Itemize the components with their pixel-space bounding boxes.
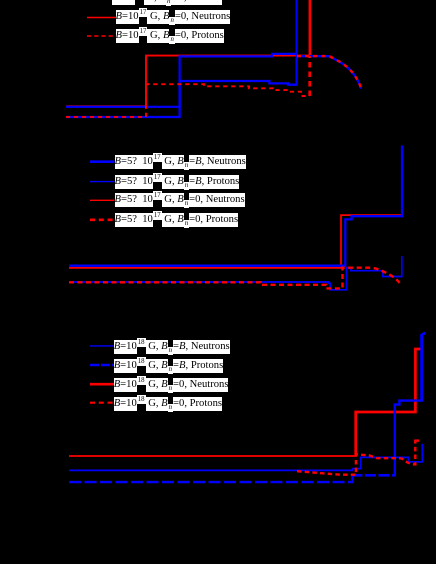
- panel 3 blue proton jump d: [394, 405, 396, 477]
- legend panel 3 entry 1 text: B=1e18 Bn=B Neutrons: [114, 340, 230, 354]
- panel 2 red neutron curve (B=5e17, Bn=0, Neutrons): [69, 215, 402, 268]
- legend panel 2 entry 3 text: B=5e17 Bn=0 Neutrons: [115, 193, 245, 207]
- panel 1 red neutron curve (B=1e17, Bn=0, Neutrons): [66, 56, 310, 107]
- legend panel 3 entry 2 text: B=1e18 Bn=B Protons: [114, 359, 224, 373]
- legend panel 2 entry 1 text: B=5e17 Bn=B Neutrons: [115, 155, 246, 169]
- panel 3 red neutron jump staircase: [356, 349, 422, 456]
- panel 2 red proton dashed curve (B=5e17, Bn=0, Protons): [69, 268, 400, 289]
- panel 3 blue proton top jog g: [422, 332, 425, 334]
- legend panel 3 entry 4 text: B=1e18 Bn=0 Protons: [114, 397, 222, 411]
- panel 3 blue proton step b: [351, 475, 353, 483]
- legend panel 2 entry 4 text: B=5e17 Bn=0 Protons: [115, 213, 239, 227]
- legend panel 2 entry 3 sample line: red thin: [90, 199, 114, 201]
- panel 1 blue neutron curve (B=1e17, Bn=B, Neutrons): [66, 0, 297, 107]
- legend panel 1 entry 4 text: B=1e17 Bn=0 Protons: [116, 29, 224, 43]
- panel 3 blue proton jump f: [420, 334, 423, 402]
- panel 3 blue proton segment e: [394, 401, 422, 405]
- legend panel 2 entry 4 sample line: red dashed thick: [90, 219, 114, 222]
- panel 1 red proton dashed jump: [308, 56, 311, 96]
- legend panel 3 entry 4 sample line: red dashed: [90, 402, 114, 404]
- legend panel 3 entry 3 text: B=1e18 Bn=0 Neutrons: [114, 378, 229, 392]
- legend panel 2 entry 2 sample line: blue thin: [90, 181, 114, 183]
- legend panel 1 entry 4 sample line: red dashed: [87, 35, 119, 37]
- panel 3 blue proton segment c: [351, 474, 394, 477]
- panel 1 blue proton curve (B=1e17, Bn=B, Protons): [66, 56, 361, 117]
- legend panel 2 entry 1 sample line: blue thick: [90, 160, 114, 163]
- panel 2 blue proton curve (B=5e17, Bn=B, Protons): [69, 256, 402, 290]
- panel 3 red proton top hook dash: [415, 439, 419, 441]
- panel 1 red proton dashed tail: [297, 56, 361, 88]
- panel 3 red neutron curve (B=1e18, Bn=0, Neutrons): [69, 455, 356, 457]
- legend panel 3 entry 1 sample line: blue thin: [90, 345, 114, 347]
- legend panel 1 entry 3 sample line: red solid: [87, 17, 119, 19]
- legend panel 1 entry 3 text: B=1e17 Bn=0 Neutrons: [116, 10, 231, 24]
- panel 1 red neutron jump at crust-core boundary: [309, 0, 312, 57]
- panel 1 red proton dashed curve (B=1e17, Bn=0, Protons): [66, 84, 310, 117]
- legend panel 3 entry 2 sample line: blue long-dash: [90, 364, 114, 366]
- panel 2 blue neutron curve (B=5e17, Bn=B, Neutrons): [69, 146, 402, 266]
- panel 3 blue proton dashed curve segment a (B=1e18, Bn=B, Protons): [69, 481, 353, 483]
- legend panel 2 entry 2 text: B=5e17 Bn=B Protons: [115, 175, 240, 189]
- panel 3 red proton dashed curve (B=1e18, Bn=0, Protons): [297, 440, 415, 475]
- legend panel 1 entry 2 text (cut off at top): B=1e17 Bn=B Protons: [112, 0, 222, 5]
- legend panel 3 entry 3 sample line: red thick: [90, 383, 114, 386]
- panel 3 blue neutron curve (B=1e18, Bn=B, Neutrons): [69, 444, 422, 471]
